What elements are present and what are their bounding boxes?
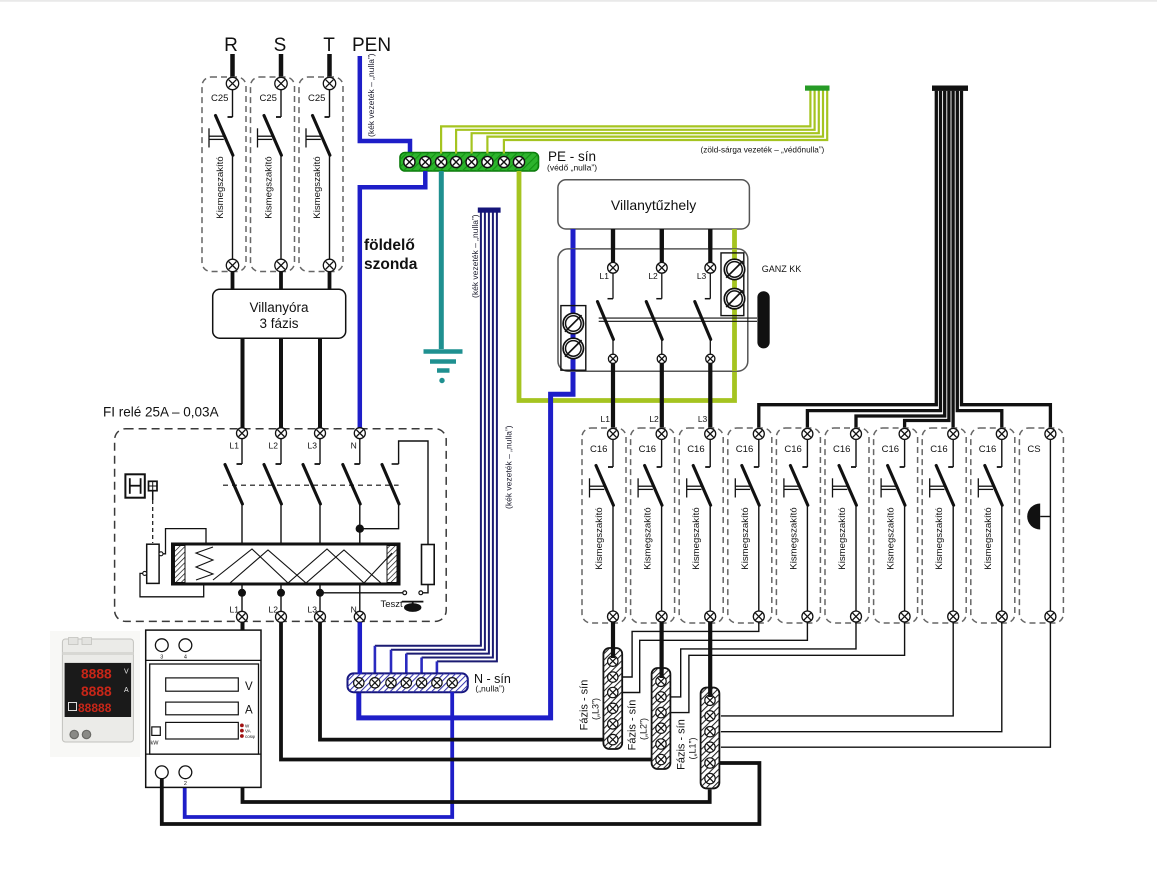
- FI output terminal L2: [276, 611, 287, 622]
- svg-text:(zöld-sárga vezeték – „védőnul: (zöld-sárga vezeték – „védőnulla”): [701, 146, 825, 155]
- svg-text:L3: L3: [308, 441, 318, 451]
- svg-text:C16: C16: [833, 444, 850, 455]
- svg-text:L1: L1: [230, 441, 240, 451]
- svg-text:Kismegszakító: Kismegszakító: [643, 507, 654, 569]
- svg-text:Kismegszakító: Kismegszakító: [264, 156, 275, 218]
- load feed wire 6 (black): [856, 91, 945, 429]
- svg-text:L1: L1: [601, 414, 611, 424]
- svg-text:8888: 8888: [81, 666, 112, 681]
- wire N from PE bus t2 to FI relay (blue): [360, 171, 426, 428]
- load feed wire 5 (black): [807, 91, 940, 429]
- FI trip linkage (dashed): [223, 484, 399, 486]
- svg-text:L3: L3: [698, 414, 708, 424]
- phase bus bar Fazis-sin L2: [652, 668, 671, 769]
- PE bus bar PE-sin: [400, 153, 539, 172]
- svg-text:GANZ KK: GANZ KK: [762, 264, 802, 274]
- wire breaker1 to bar L3: [611, 622, 615, 658]
- svg-text:R: R: [224, 35, 238, 56]
- svg-text:Kismegszakító: Kismegszakító: [594, 507, 605, 569]
- svg-text:(„nulla”): („nulla”): [475, 684, 504, 694]
- svg-text:Fázis - sín: Fázis - sín: [627, 700, 639, 751]
- svg-text:Kismegszakító: Kismegszakító: [934, 507, 945, 569]
- wire breaker4 to bar L3: [622, 622, 759, 677]
- svg-text:2: 2: [184, 781, 187, 787]
- svg-text:Kismegszakító: Kismegszakító: [983, 507, 994, 569]
- FI test resistor: [422, 545, 435, 585]
- wire N bus to meter 2 (blue): [185, 692, 453, 817]
- svg-text:L2: L2: [269, 605, 279, 615]
- wire PE 4 (green-yellow): [487, 90, 823, 154]
- svg-text:CS: CS: [1027, 444, 1040, 455]
- svg-text:Kismegszakító: Kismegszakító: [691, 507, 702, 569]
- svg-text:(kék vezeték – „nulla”): (kék vezeték – „nulla”): [366, 53, 376, 137]
- svg-text:C16: C16: [882, 444, 899, 455]
- svg-text:Kismegszakító: Kismegszakító: [788, 507, 799, 569]
- N bus bar N-sin: [348, 673, 468, 692]
- energy meter module box: [146, 630, 261, 787]
- wire PE 5 (green-yellow): [504, 90, 827, 154]
- FI test-window symbol: [149, 481, 158, 543]
- breaker C16-2: [631, 428, 675, 623]
- wire meter out to bar L1 bottom: [243, 787, 710, 802]
- meter display kW: [166, 722, 239, 739]
- wire N bundle 3 to N bus: [406, 213, 489, 654]
- wire N bundle 1 to N bus: [375, 213, 481, 646]
- stove switch box GANZ KK: [558, 249, 748, 371]
- FI input terminal L2: [276, 428, 287, 439]
- wire FI L1 to kWh module: [241, 622, 245, 630]
- wire breaker9 to bar L1: [721, 622, 1002, 732]
- FI input terminal L3: [315, 428, 326, 439]
- svg-text:földelő: földelő: [364, 237, 415, 254]
- svg-text:C16: C16: [687, 444, 704, 455]
- svg-text:4: 4: [184, 655, 187, 661]
- stove box Villanytuzhely: [558, 180, 750, 229]
- wire L2 meter to FI relay: [279, 338, 283, 428]
- FI output terminal L3: [315, 611, 326, 622]
- svg-text:L1: L1: [230, 605, 240, 615]
- wire N bundle 5 to N bus: [437, 213, 497, 662]
- wire PE to stove (green-yellow): [519, 171, 735, 401]
- svg-text:S: S: [274, 35, 287, 56]
- wire PE 1 (green-yellow): [441, 90, 810, 154]
- svg-text:cosφ: cosφ: [245, 734, 255, 739]
- svg-text:Fázis - sín: Fázis - sín: [676, 719, 688, 770]
- FI trip coil: [140, 529, 206, 597]
- wire T to meter: [328, 271, 332, 290]
- svg-text:V: V: [245, 681, 253, 693]
- svg-text:Kismegszakító: Kismegszakító: [886, 507, 897, 569]
- svg-text:3: 3: [160, 655, 163, 661]
- svg-text:FI relé 25A – 0,03A: FI relé 25A – 0,03A: [103, 405, 219, 420]
- load feed wire 10 (black): [962, 91, 1051, 429]
- wire switch L2 to breaker: [660, 363, 664, 429]
- wire breaker3 to bar L1: [708, 622, 712, 697]
- wire meter 1 to bar L1 t5: [162, 763, 760, 824]
- svg-text:A: A: [124, 687, 129, 694]
- PE bundle cap: [805, 86, 830, 91]
- svg-text:(kék vezeték – „nulla”): (kék vezeték – „nulla”): [470, 214, 480, 298]
- svg-text:L3: L3: [308, 605, 318, 615]
- svg-text:Kismegszakító: Kismegszakító: [740, 507, 751, 569]
- svg-text:L2: L2: [269, 441, 279, 451]
- switch pole L3: [695, 229, 716, 363]
- svg-text:L2: L2: [649, 414, 659, 424]
- wire PEN (blue) to PE bus: [360, 56, 410, 156]
- doorbell circuit CS: [1019, 428, 1063, 623]
- N wire bundle cap: [478, 208, 501, 213]
- svg-text:Teszt: Teszt: [381, 599, 404, 610]
- svg-text:(„L1”): („L1”): [688, 737, 698, 759]
- svg-text:szonda: szonda: [364, 256, 418, 273]
- meter terminal 3: [155, 639, 168, 652]
- breaker C25-3 (Kismegszakító): [299, 77, 343, 272]
- svg-text:C16: C16: [979, 444, 996, 455]
- svg-text:Villanytűzhely: Villanytűzhely: [611, 197, 696, 213]
- svg-text:Kismegszakító: Kismegszakító: [215, 156, 226, 218]
- svg-text:Villanyóra: Villanyóra: [249, 300, 309, 315]
- meter terminal 1: [155, 766, 168, 779]
- breaker C16-3: [679, 428, 723, 623]
- FI junction dot N: [356, 525, 364, 533]
- svg-text:C16: C16: [930, 444, 947, 455]
- svg-text:(„L3”): („L3”): [590, 698, 600, 720]
- svg-text:C16: C16: [639, 444, 656, 455]
- switch handle: [757, 291, 769, 348]
- wire S feed: [279, 54, 284, 78]
- wire stove L3: [708, 229, 712, 262]
- svg-text:8888: 8888: [81, 684, 112, 699]
- svg-text:L2: L2: [648, 271, 658, 281]
- wire N bundle 4 to N bus: [422, 213, 493, 658]
- FI output terminal L1: [237, 611, 248, 622]
- FI junction dots L1 L2 L3: [238, 589, 246, 597]
- svg-text:(védő „nulla”): (védő „nulla”): [547, 163, 597, 173]
- svg-text:L1: L1: [600, 271, 610, 281]
- svg-text:Kismegszakító: Kismegszakító: [312, 156, 323, 218]
- FI current transformer (toroid): [173, 544, 400, 584]
- switch pole L2: [646, 229, 667, 363]
- wire breaker2 to bar L2: [659, 622, 663, 678]
- svg-text:C25: C25: [211, 93, 228, 104]
- breaker C16-6: [825, 428, 869, 623]
- breaker C16-9: [971, 428, 1015, 623]
- wire FI L2 to bar L2: [281, 622, 652, 759]
- svg-text:(kék vezeték – „nulla”): (kék vezeték – „nulla”): [504, 425, 514, 509]
- load feed wire 7 (black): [905, 91, 949, 429]
- svg-text:(„L2”): („L2”): [639, 718, 649, 740]
- breaker C16-4: [728, 428, 772, 623]
- FI switch blades: [225, 439, 360, 612]
- svg-text:C16: C16: [784, 444, 801, 455]
- breaker C25-1 (Kismegszakító): [202, 77, 246, 272]
- svg-text:C16: C16: [736, 444, 753, 455]
- wire stove L2: [660, 229, 664, 262]
- svg-text:A: A: [245, 705, 253, 717]
- wire stove L1: [611, 229, 615, 262]
- breaker C16-5: [776, 428, 820, 623]
- FI test button Teszt: [320, 585, 428, 612]
- right screw terminal block: [721, 253, 745, 316]
- wire breaker6 to bar L2: [670, 622, 856, 697]
- svg-text:3 fázis: 3 fázis: [259, 316, 298, 331]
- left screw terminal block: [561, 306, 586, 371]
- wire S to meter: [279, 271, 283, 290]
- breaker C16-8: [922, 428, 966, 623]
- svg-text:N: N: [351, 605, 357, 615]
- FI input terminal N: [354, 428, 365, 439]
- meter terminal 4: [179, 639, 192, 652]
- svg-text:88888: 88888: [78, 701, 112, 715]
- ground symbol: [424, 349, 463, 354]
- meter display V: [166, 678, 239, 691]
- svg-text:PEN: PEN: [352, 35, 391, 56]
- svg-text:T: T: [323, 35, 335, 56]
- wire PE through switch (green): [732, 249, 737, 371]
- FI relay box (RCD): [115, 429, 447, 622]
- wire breaker8 to bar L1: [721, 622, 953, 716]
- svg-text:Fázis - sín: Fázis - sín: [578, 680, 590, 731]
- switch pole L1: [598, 229, 619, 363]
- svg-text:L3: L3: [697, 271, 707, 281]
- breaker C16-7: [874, 428, 918, 623]
- wire R to meter: [231, 271, 235, 290]
- svg-text:C25: C25: [308, 93, 325, 104]
- phase bus bar Fazis-sin L3: [603, 648, 622, 749]
- DIN rail voltmeter module (photo): [50, 631, 140, 757]
- wire switch L1 to breaker: [611, 363, 615, 429]
- FI output terminal N: [354, 611, 365, 622]
- wire FI L3 to bar L3: [320, 622, 603, 739]
- svg-text:VA: VA: [245, 729, 251, 734]
- wire switch L3 to breaker: [708, 363, 712, 429]
- wire PE 3 (green-yellow): [472, 90, 819, 154]
- FI test switch branch: [360, 441, 428, 545]
- wire L3 meter to FI relay: [318, 338, 322, 428]
- wire FI N to N bus (blue): [358, 622, 363, 674]
- wire N bundle 2 to N bus: [391, 213, 485, 650]
- wire N to stove (blue): [359, 229, 573, 718]
- FI relay H symbol: [125, 474, 144, 497]
- svg-text:V: V: [124, 669, 129, 676]
- load wire bundle cap (black): [932, 86, 968, 91]
- svg-text:kW: kW: [151, 741, 160, 747]
- breaker C16-1: [582, 428, 626, 623]
- svg-text:C16: C16: [590, 444, 607, 455]
- wire doorbell to bar L1: [721, 622, 1051, 747]
- svg-text:Kismegszakító: Kismegszakító: [837, 507, 848, 569]
- wire R feed: [230, 54, 235, 78]
- phase bus bar Fazis-sin L1: [701, 688, 720, 789]
- wire breaker5 to bar L3: [622, 622, 807, 693]
- wire L1 meter to FI relay: [241, 338, 245, 428]
- meter display A: [166, 702, 239, 715]
- wire N through switch (blue): [571, 249, 576, 371]
- FI input terminal L1: [237, 428, 248, 439]
- svg-text:C25: C25: [260, 93, 277, 104]
- wire PE 2 (green-yellow): [456, 90, 814, 154]
- wire earth probe (teal): [439, 171, 444, 349]
- load feed wire 4 (black): [759, 91, 937, 429]
- wire breaker7 to bar L2: [670, 622, 904, 713]
- load feed wire 8 (black): [951, 91, 954, 429]
- meter terminal 2: [179, 766, 192, 779]
- kWh meter box Villanyóra 3 fázis: [213, 289, 346, 338]
- breaker C25-2 (Kismegszakító): [251, 77, 295, 272]
- wire T feed: [327, 54, 332, 78]
- load feed wire 9 (black): [957, 91, 1002, 429]
- switch linkage: [599, 317, 757, 319]
- svg-text:N: N: [351, 441, 357, 451]
